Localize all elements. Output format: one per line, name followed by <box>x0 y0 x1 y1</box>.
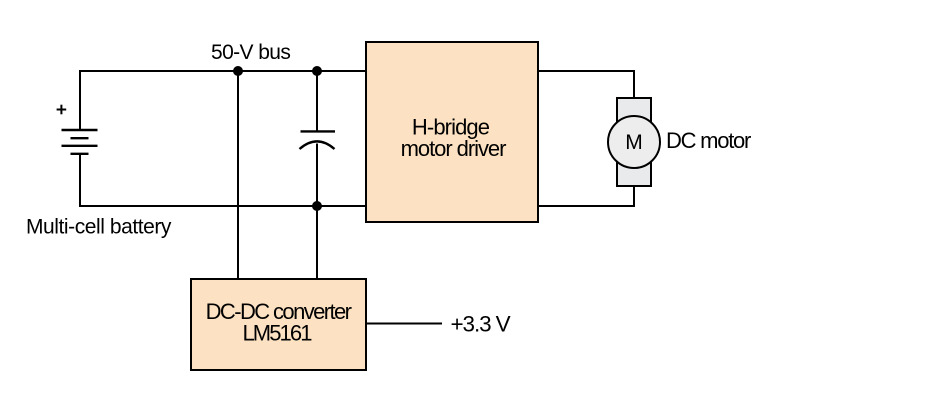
svg-text:LM5161: LM5161 <box>242 321 312 346</box>
wire: bottom return rail <box>80 205 366 207</box>
node: 50-V bus junction <box>233 66 243 76</box>
wire: battery top lead <box>79 70 81 130</box>
wire: battery bottom lead <box>79 154 81 207</box>
svg-text:DC motor: DC motor <box>666 128 751 153</box>
motor M1 (DC motor) <box>608 98 660 186</box>
battery BT1 (multi-cell) <box>62 130 98 154</box>
wire: H-bridge output top to motor <box>538 71 634 99</box>
node: capacitor top junction <box>312 66 322 76</box>
DC-DC converter U2 LM5161 <box>191 279 366 370</box>
capacitor C1 (bus bulk capacitor) <box>300 131 336 149</box>
wire: H-bridge output bottom to motor <box>538 185 634 206</box>
svg-text:50-V bus: 50-V bus <box>211 41 290 64</box>
svg-text:Multi-cell battery: Multi-cell battery <box>26 216 172 239</box>
label: battery + polarity <box>57 105 67 115</box>
wire: capacitor bottom lead down to DC-DC converter <box>316 144 318 280</box>
wire: +3.3-V output <box>366 323 442 325</box>
node: bottom rail junction <box>312 201 322 211</box>
H-bridge motor driver U1 <box>366 42 538 222</box>
svg-text:+3.3 V: +3.3 V <box>451 312 511 337</box>
wire: capacitor top lead <box>316 71 318 131</box>
svg-text:motor driver: motor driver <box>401 136 506 161</box>
wire: top 50-V bus rail <box>80 70 366 72</box>
wire: 50-V feed down to DC-DC converter <box>237 71 239 279</box>
svg-text:M: M <box>625 131 643 154</box>
